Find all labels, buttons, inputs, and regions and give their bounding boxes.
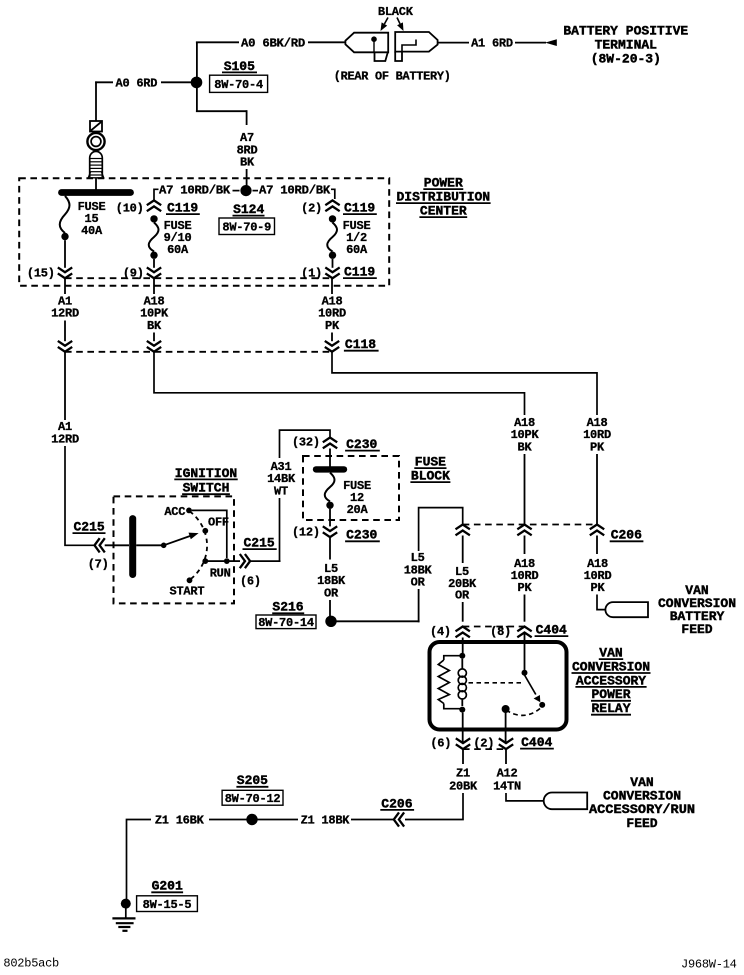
relay linkage dashed — [469, 682, 522, 684]
wire into relay coil — [462, 638, 464, 654]
drawing number J968W-14 — [681, 958, 737, 972]
svg-text:START: START — [170, 585, 205, 599]
label POWER DISTRIBUTION CENTER — [396, 176, 491, 219]
connector C230 cavity (32) — [292, 435, 337, 449]
svg-text:FEED: FEED — [681, 622, 712, 637]
connector C215 cavity (6) — [240, 536, 277, 589]
svg-text:BK: BK — [147, 319, 162, 333]
label (REAR OF BATTERY) — [334, 70, 451, 84]
label BLACK — [378, 5, 414, 19]
connector C119 cavity (9) — [123, 267, 161, 281]
battery connector right half — [395, 32, 437, 61]
wire A18 10RD PK (PDC to C118) — [318, 278, 346, 341]
label C230 bottom — [345, 528, 380, 543]
svg-text:A0 6BK/RD: A0 6BK/RD — [241, 37, 305, 51]
svg-text:(9): (9) — [123, 267, 144, 281]
reference 8W-15-5 — [137, 896, 198, 912]
wire C230-32 into fuse block — [329, 449, 331, 467]
svg-text:(1): (1) — [301, 267, 322, 281]
connector C206 cavity Z1 — [380, 796, 414, 826]
label C119 top-right — [343, 201, 377, 216]
connector C206 dashed row and label — [463, 525, 644, 543]
wire ACC feed — [192, 510, 227, 558]
wire A18 10PK BK (C118 jog to C206) — [154, 352, 539, 524]
label C230 top — [345, 437, 380, 452]
arrow BLACK-right — [397, 18, 404, 32]
splice S216 — [272, 600, 336, 627]
wire A7 10RD/BK right (S124 to hook) — [253, 184, 335, 199]
svg-text:(4): (4) — [430, 625, 451, 639]
relay coil — [458, 659, 466, 706]
wire A7 8RD BK (S105 down to PDC) — [196, 88, 258, 186]
connector C404 bottom dashed row and label — [463, 735, 554, 750]
position START — [170, 577, 205, 598]
wire A0 6BK/RD (S105 up to battery connector) — [196, 37, 346, 78]
svg-text:12RD: 12RD — [51, 307, 79, 321]
svg-text:OR: OR — [455, 589, 470, 603]
connector C404 cavity (8) — [490, 625, 532, 639]
battery eyelet terminal crimp — [90, 121, 102, 132]
PDC bus bar — [62, 189, 131, 196]
wire L5 20BK OR (C206 to relay) — [448, 536, 477, 622]
svg-text:ACC: ACC — [164, 505, 185, 519]
ignition output junction — [208, 558, 240, 564]
svg-text:802b5acb: 802b5acb — [3, 957, 59, 971]
ignition switch contact bar — [129, 519, 136, 575]
ignition switch wiper — [136, 533, 198, 549]
svg-text:BK: BK — [518, 440, 533, 454]
svg-text:WT: WT — [274, 484, 288, 498]
battery eyelet terminal ring — [87, 133, 104, 150]
relay switch pivot — [522, 670, 528, 676]
wire Z1 16BK (S205 to ground G201) — [127, 814, 247, 899]
svg-text:(REAR OF BATTERY): (REAR OF BATTERY) — [334, 70, 451, 84]
svg-text:40A: 40A — [81, 224, 103, 238]
svg-text:J968W-14: J968W-14 — [681, 958, 737, 971]
svg-text:PK: PK — [518, 581, 533, 595]
reference 8W-70-12 — [222, 790, 283, 806]
fuse block bus bar — [316, 466, 344, 472]
reference 8W-70-4 — [210, 75, 268, 92]
svg-text:PK: PK — [591, 581, 606, 595]
label IGNITION SWITCH — [174, 466, 237, 496]
svg-text:BLACK: BLACK — [378, 5, 414, 19]
svg-text:FEED: FEED — [626, 816, 657, 831]
ground symbol — [112, 909, 135, 931]
svg-text:OR: OR — [411, 576, 426, 590]
wire A18 10PK BK (PDC to C118) — [140, 278, 169, 341]
svg-text:(32): (32) — [292, 435, 320, 449]
label VAN CONVERSION ACCESSORY POWER RELAY — [572, 646, 651, 717]
off-page arrow to battery positive terminal — [545, 39, 557, 46]
position RUN — [202, 558, 230, 580]
svg-text:8W-70-14: 8W-70-14 — [258, 616, 314, 630]
label BATTERY POSITIVE TERMINAL (8W-20-3) — [563, 24, 688, 67]
svg-text:20A: 20A — [347, 503, 369, 517]
connector C118 cavity A18-PK — [147, 341, 161, 352]
svg-text:8W-15-5: 8W-15-5 — [143, 898, 192, 912]
wire A7 10RD/BK left (hook to S124) — [154, 184, 240, 200]
svg-text:(10): (10) — [116, 202, 144, 216]
svg-text:BK: BK — [240, 156, 255, 170]
wire Z1 20BK (relay to C206) — [405, 750, 478, 820]
relay output node — [502, 705, 510, 743]
arrow BLACK-left — [381, 18, 389, 32]
svg-text:Z1 16BK: Z1 16BK — [155, 814, 205, 828]
svg-text:Z1 18BK: Z1 18BK — [301, 814, 351, 828]
reference 8W-70-14 — [256, 615, 316, 630]
svg-text:60A: 60A — [167, 243, 189, 257]
svg-text:14TN: 14TN — [493, 779, 521, 793]
wire L5 18BK OR (S216 up to C206) — [337, 508, 463, 623]
wire A1 12RD (PDC to C118) — [51, 278, 79, 341]
svg-text:20BK: 20BK — [449, 779, 478, 793]
connector C119 cavity (1) — [301, 267, 340, 281]
ignition switch box — [114, 496, 235, 603]
fuse 1/2 60A — [327, 215, 370, 268]
label VAN CONVERSION BATTERY FEED — [658, 583, 736, 637]
fuse 9/10 60A — [149, 215, 192, 268]
svg-text:(2): (2) — [301, 202, 322, 216]
wire A0 6RD (eyelet to splice S105) — [95, 77, 191, 122]
svg-text:(7): (7) — [88, 558, 109, 572]
wire A1 6RD (to battery positive terminal) — [438, 37, 546, 51]
svg-text:(12): (12) — [292, 525, 320, 539]
svg-text:A7 10RD/BK: A7 10RD/BK — [259, 184, 331, 198]
svg-text:OFF: OFF — [208, 515, 229, 529]
connector C215 cavity (7) — [73, 520, 109, 572]
fuse 15 40A — [60, 196, 106, 268]
svg-text:(8W-20-3): (8W-20-3) — [591, 51, 661, 66]
splice S205 — [236, 773, 268, 825]
wire L5 18BK OR (fuse block to S216) — [317, 537, 346, 616]
C119 connector row dashed line — [65, 277, 333, 279]
connector C230 cavity (12) — [292, 525, 337, 539]
svg-text:PK: PK — [325, 319, 340, 333]
position ACC — [164, 505, 192, 519]
svg-text:8W-70-4: 8W-70-4 — [214, 78, 263, 92]
relay coil bottom node — [459, 707, 465, 713]
svg-text:A0 6RD: A0 6RD — [116, 77, 158, 91]
connector C119 cavity (2) — [301, 200, 340, 215]
reference 8W-70-9 — [219, 218, 275, 235]
wire A31 14BK WT (ignition to fuse block) — [250, 430, 330, 561]
connector C404 cavity (4) — [430, 625, 470, 639]
wire into relay switch — [524, 633, 526, 670]
wire A18 10RD PK (C206 to relay) — [511, 536, 539, 622]
van conversion accessory/run feed terminal — [544, 793, 588, 810]
splice S124 — [233, 185, 265, 217]
svg-text:TERMINAL: TERMINAL — [595, 38, 658, 53]
van conversion battery feed terminal — [605, 602, 648, 617]
splice S105 — [191, 59, 257, 88]
svg-text:(15): (15) — [27, 267, 55, 281]
svg-text:A1 6RD: A1 6RD — [471, 37, 513, 51]
wire Z1 18BK (C206 to S205) — [247, 814, 394, 828]
svg-text:OR: OR — [324, 586, 339, 600]
wire A12 14TN (relay to accessory/run feed) — [493, 750, 544, 801]
connector C118 cavity A18-RD — [325, 341, 339, 352]
connector C206 cavity A18-1 — [517, 525, 531, 536]
ignition detent arc — [190, 511, 208, 579]
svg-text:PK: PK — [590, 440, 605, 454]
connector C404 top dashed row and label — [463, 623, 569, 638]
ground node G201 — [121, 879, 183, 909]
connector C404 cavity (2) — [473, 736, 513, 750]
svg-text:A7 10RD/BK: A7 10RD/BK — [159, 184, 231, 198]
connector C118 dashed row and label — [65, 337, 379, 352]
relay resistor — [438, 656, 462, 709]
relay switch arm — [525, 675, 546, 708]
position OFF — [202, 515, 229, 533]
label C119 bottom-right — [343, 265, 377, 280]
connector C119 cavity (10) — [116, 200, 161, 215]
connector C119 cavity (15) — [27, 267, 72, 281]
battery terminal stud — [88, 151, 103, 189]
connector C206 cavity A18-2 — [590, 525, 604, 536]
connector C404 cavity (6) — [430, 736, 470, 750]
svg-text:(6): (6) — [430, 736, 451, 750]
label C119 top-left — [166, 201, 200, 216]
plate code 802b5acb — [3, 957, 59, 971]
relay switch throw arc dashed — [508, 709, 541, 716]
fuse block box — [303, 456, 399, 520]
wire C215 to bar — [105, 544, 129, 546]
label VAN CONVERSION ACCESSORY/RUN FEED — [589, 775, 695, 831]
svg-text:BATTERY POSITIVE: BATTERY POSITIVE — [563, 24, 688, 39]
van conversion accessory power relay box — [430, 642, 567, 730]
wire A1 12RD (C118 to C215) — [51, 352, 94, 545]
wire A18 10RD PK (C118 jog to C206) — [332, 352, 611, 524]
svg-text:RUN: RUN — [210, 567, 231, 581]
svg-text:(6): (6) — [240, 574, 261, 588]
connector C118 cavity A1 — [58, 341, 72, 352]
fuse 12 20A — [325, 473, 371, 527]
svg-text:8W-70-9: 8W-70-9 — [222, 220, 271, 234]
svg-text:8W-70-12: 8W-70-12 — [225, 792, 281, 806]
connector C206 cavity L5 — [456, 525, 470, 536]
power distribution center box — [19, 178, 389, 285]
svg-text:60A: 60A — [346, 243, 368, 257]
relay coil top node — [459, 653, 465, 659]
wire A18 10RD PK (C206 to battery feed) — [584, 536, 612, 610]
svg-text:12RD: 12RD — [51, 432, 79, 446]
wire relay coil to C404-6 — [462, 713, 464, 744]
label FUSE BLOCK — [410, 455, 450, 484]
battery connector left half — [345, 33, 388, 61]
